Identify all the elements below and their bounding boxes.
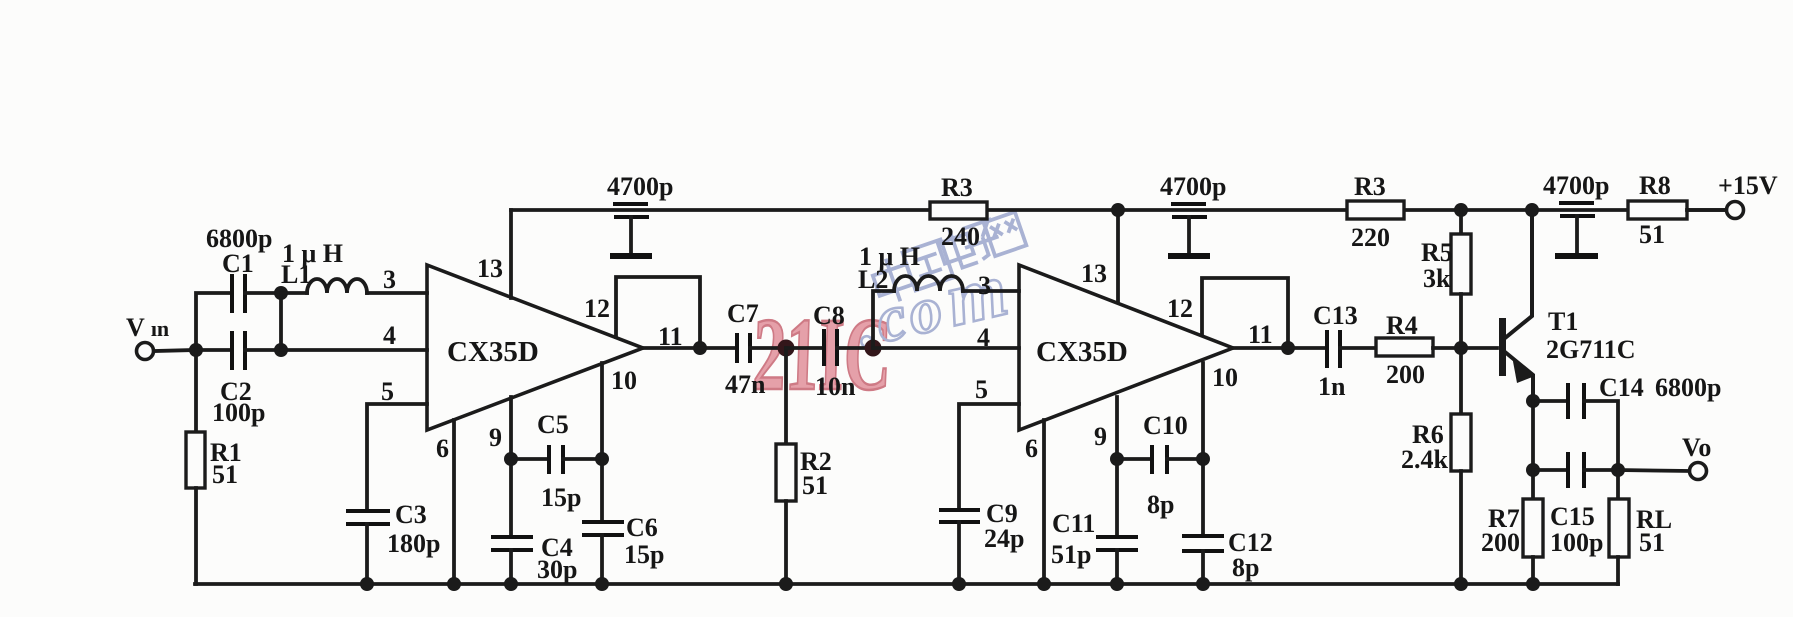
node collector rail junction (1525, 203, 1539, 217)
wire C5 branch left (511, 457, 549, 461)
node R6 ground junction (1454, 577, 1468, 591)
wire C13 to R4 (1340, 346, 1376, 350)
wire C8 to node E (837, 346, 873, 350)
wire pin12 feedback box op2 (1202, 278, 1288, 348)
svg-text:200: 200 (1481, 528, 1520, 557)
svg-text:6: 6 (1025, 434, 1038, 463)
node C15 left junction (1526, 463, 1540, 477)
svg-text:200: 200 (1386, 360, 1425, 389)
wire C10 branch right (1167, 457, 1203, 461)
svg-text:R4: R4 (1386, 311, 1418, 340)
capacitor C8 (824, 329, 837, 366)
svg-text:4700p: 4700p (1160, 172, 1226, 201)
svg-text:L1: L1 (281, 260, 311, 289)
wire pin10 op2 down (1201, 363, 1205, 536)
transistor Q1 emitter with arrow (1505, 352, 1533, 401)
wire node G to Vo terminal (1618, 470, 1689, 471)
wire C7 to node D (750, 346, 786, 350)
resistor R7 (1523, 499, 1543, 557)
wire C15 right to node G (1584, 468, 1618, 472)
svg-text:6: 6 (436, 434, 449, 463)
resistor R6 (1451, 414, 1471, 471)
transistor Q1 base bar (1499, 318, 1506, 376)
svg-text:10: 10 (611, 366, 637, 395)
inductor L1 (281, 279, 427, 293)
node C junction (274, 343, 288, 357)
svg-text:T1: T1 (1548, 307, 1578, 336)
wire pin12 feedback box op1 (616, 277, 700, 348)
wire pin4 op1 (281, 348, 427, 352)
svg-text:C15: C15 (1550, 502, 1595, 531)
wire R8 to +15V terminal (1687, 208, 1726, 212)
svg-text:C13: C13 (1313, 301, 1358, 330)
wire op2 output to C13 (1233, 346, 1327, 350)
svg-text:12: 12 (1167, 294, 1193, 323)
wire R5 to node F (1459, 294, 1463, 348)
wire node B to node C vertical (279, 293, 283, 350)
resistor R5 (1451, 234, 1471, 294)
watermark chinese char 中 (869, 253, 917, 307)
resistor RL (1609, 499, 1629, 557)
wire pin5 op1 (367, 404, 427, 510)
wire pin5 op2 (959, 404, 1019, 509)
svg-text:51: 51 (212, 460, 238, 489)
svg-text:C8: C8 (813, 301, 845, 330)
svg-text:8p: 8p (1147, 490, 1174, 519)
wire node A to C2 (196, 348, 231, 352)
wire op1 output to C7 (643, 346, 737, 350)
svg-text:4: 4 (383, 321, 396, 350)
svg-text:180p: 180p (387, 529, 440, 558)
capacitor C14 (1568, 383, 1584, 419)
capacitor C12 (1182, 536, 1224, 551)
svg-text:30p: 30p (537, 555, 577, 584)
node D junction (778, 340, 795, 357)
wire R1 branch (194, 350, 198, 432)
svg-text:9: 9 (489, 423, 502, 452)
wire emitter node to C14 (1533, 399, 1568, 403)
node pin9-2 C10 junction (1110, 452, 1124, 466)
node pin10-2 ground junction (1196, 577, 1210, 591)
wire node F to R6 (1459, 348, 1463, 414)
svg-text:R5: R5 (1421, 238, 1453, 267)
svg-text:4700p: 4700p (1543, 171, 1609, 200)
svg-text:13: 13 (1081, 259, 1107, 288)
svg-text:C3: C3 (395, 500, 427, 529)
svg-text:51: 51 (1639, 528, 1665, 557)
wire C15 left (1533, 468, 1568, 472)
svg-text:4: 4 (977, 323, 990, 352)
capacitor 4700p bypass 2 (1168, 204, 1210, 256)
node R5 rail junction (1454, 203, 1468, 217)
node pin10 ground junction (595, 577, 609, 591)
svg-text:6800p: 6800p (206, 224, 272, 253)
svg-text:Vo: Vo (1682, 433, 1711, 462)
svg-text:C1: C1 (222, 249, 254, 278)
wire C14 right side down (1584, 401, 1618, 470)
svg-text:3k: 3k (1423, 264, 1451, 293)
capacitor C4 (491, 537, 533, 550)
svg-text:220: 220 (1351, 223, 1390, 252)
svg-text:R3: R3 (941, 173, 973, 202)
resistor R2 (776, 444, 796, 501)
node C3 ground junction (360, 577, 374, 591)
wire pin13 op1 (509, 210, 513, 298)
svg-text:R3: R3 (1354, 172, 1386, 201)
inductor L2 (894, 276, 1019, 291)
capacitor C15 (1568, 452, 1584, 488)
wire C11 to ground (1115, 550, 1119, 584)
svg-text:47n: 47n (725, 370, 766, 399)
wire node G to RL (1616, 470, 1620, 499)
wire Vin to node A (154, 350, 195, 351)
svg-text:11: 11 (1248, 320, 1273, 349)
node A junction at input (189, 343, 203, 357)
svg-text:1n: 1n (1318, 372, 1346, 401)
svg-text:8p: 8p (1232, 553, 1259, 582)
node pin9 ground junction (504, 577, 518, 591)
svg-text:C7: C7 (727, 299, 759, 328)
op-amp U2 CX35D (1019, 265, 1233, 430)
wire R1 to ground (194, 488, 198, 584)
wire pin13 op2 (1116, 210, 1120, 302)
transistor Q1 collector (1505, 210, 1532, 338)
svg-text:10: 10 (1212, 363, 1238, 392)
wire R6 to ground (1459, 471, 1463, 584)
wire C3 to ground (365, 524, 369, 584)
op-amp U1 CX35D (427, 265, 643, 430)
wire pin6 op2 to ground (1042, 420, 1046, 584)
svg-text:5: 5 (975, 375, 988, 404)
resistor R3 240 (930, 202, 987, 219)
node pin10-2 C10 junction (1196, 452, 1210, 466)
svg-text:3: 3 (383, 265, 396, 294)
watermark chinese char 电 (935, 224, 978, 272)
wire C6 to ground (600, 535, 604, 584)
wire C9 to ground (957, 522, 961, 584)
svg-text:6800p: 6800p (1655, 373, 1721, 402)
svg-text:3: 3 (978, 271, 991, 300)
wire C15 node to R7 (1531, 470, 1535, 499)
wire node D to R2 (784, 348, 788, 444)
node emitter junction (1526, 394, 1540, 408)
watermark chinese char 国 (903, 240, 954, 291)
capacitor C5 (549, 445, 563, 474)
capacitor 4700p bypass 1 (610, 204, 652, 256)
capacitor 4700p bypass 3 (1555, 203, 1598, 256)
wire R7 to ground (1531, 557, 1535, 584)
node pin6-2 ground junction (1037, 577, 1051, 591)
watermark chinese char 子 (959, 219, 1004, 264)
svg-text:C5: C5 (537, 410, 569, 439)
svg-text:10n: 10n (815, 372, 856, 401)
svg-text:4700p: 4700p (607, 172, 673, 201)
svg-text:2.4k: 2.4k (1401, 445, 1449, 474)
svg-text:5: 5 (381, 377, 394, 406)
resistor R8 (1628, 201, 1687, 219)
node R2 ground junction (779, 577, 793, 591)
svg-text:CX35D: CX35D (447, 336, 539, 368)
svg-text:CX35D: CX35D (1036, 336, 1128, 368)
node R7 ground junction (1526, 577, 1540, 591)
terminal Vo (1690, 463, 1707, 480)
wire emitter node down to C15 node (1531, 401, 1535, 470)
capacitor C2 (232, 331, 245, 370)
wire C12 to ground (1201, 551, 1205, 584)
svg-text:15p: 15p (624, 540, 664, 569)
svg-text:51: 51 (802, 471, 828, 500)
node pin10 C5 junction (595, 452, 609, 466)
svg-text:C6: C6 (626, 513, 658, 542)
wire R4 to node F (1433, 346, 1461, 350)
wire pin6 op1 to ground (452, 420, 456, 584)
wire RL to ground (1616, 557, 1620, 584)
node F base junction (1454, 341, 1468, 355)
capacitor C9 (939, 510, 980, 522)
wire ground rail (195, 582, 1618, 586)
wire pin10 op1 down (600, 363, 604, 522)
svg-text:+15V: +15V (1718, 171, 1778, 200)
wire rail to R5 (1459, 210, 1463, 234)
svg-text:2G711C: 2G711C (1546, 335, 1636, 364)
wire node E up to L2 (873, 291, 894, 348)
capacitor C6 (582, 522, 624, 535)
svg-text:R8: R8 (1639, 171, 1671, 200)
resistor R1 (186, 432, 205, 488)
wire C5 branch right (563, 457, 602, 461)
wire C1 to node B (245, 291, 281, 295)
svg-text:24p: 24p (984, 524, 1024, 553)
wire top supply rail (511, 208, 1726, 212)
node output op1 junction (693, 341, 707, 355)
resistor R4 (1376, 338, 1433, 356)
node E junction (865, 340, 882, 357)
capacitor C11 (1096, 537, 1138, 550)
terminal +15V (1727, 202, 1744, 219)
node pin9 C5 junction (504, 452, 518, 466)
node pin6 ground junction (447, 577, 461, 591)
wire pin9 op2 down (1115, 397, 1119, 537)
wire C4 to ground (509, 550, 513, 584)
wire C10 branch left (1117, 457, 1152, 461)
capacitor C3 (346, 511, 390, 524)
svg-text:100p: 100p (212, 398, 265, 427)
svg-text:9: 9 (1094, 422, 1107, 451)
capacitor C1 (232, 274, 245, 313)
svg-text:C14: C14 (1599, 373, 1644, 402)
node pin13 rail junction (1111, 203, 1125, 217)
svg-text:V ın: V ın (126, 313, 169, 342)
resistor R3 220 (1347, 201, 1404, 219)
wire C2 to node C (245, 348, 281, 352)
watermark chinese char 网 (984, 212, 1027, 256)
terminal Vin (137, 343, 154, 360)
node B junction (274, 286, 288, 300)
svg-text:L2: L2 (858, 265, 888, 294)
capacitor C10 (1152, 445, 1167, 474)
svg-text:13: 13 (477, 254, 503, 283)
svg-text:12: 12 (584, 294, 610, 323)
node pin9-2 ground junction (1110, 577, 1124, 591)
svg-text:51: 51 (1639, 220, 1665, 249)
wire pin9 op1 down (509, 397, 513, 537)
svg-text:C10: C10 (1143, 411, 1188, 440)
svg-text:100p: 100p (1550, 528, 1603, 557)
capacitor C7 (737, 333, 750, 363)
wire node D to C8 (786, 346, 824, 350)
svg-text:15p: 15p (541, 483, 581, 512)
capacitor C13 (1327, 330, 1340, 368)
svg-text:51p: 51p (1051, 540, 1091, 569)
node output op2 junction (1281, 341, 1295, 355)
node G junction (1611, 463, 1625, 477)
wire R2 to ground (784, 501, 788, 584)
wire pin4 op2 (873, 346, 1019, 350)
wire node F to base (1461, 346, 1497, 350)
node C9 ground junction (952, 577, 966, 591)
svg-text:240: 240 (941, 222, 980, 251)
svg-text:C11: C11 (1052, 509, 1095, 538)
wire node A up to C1 branch (196, 293, 231, 350)
